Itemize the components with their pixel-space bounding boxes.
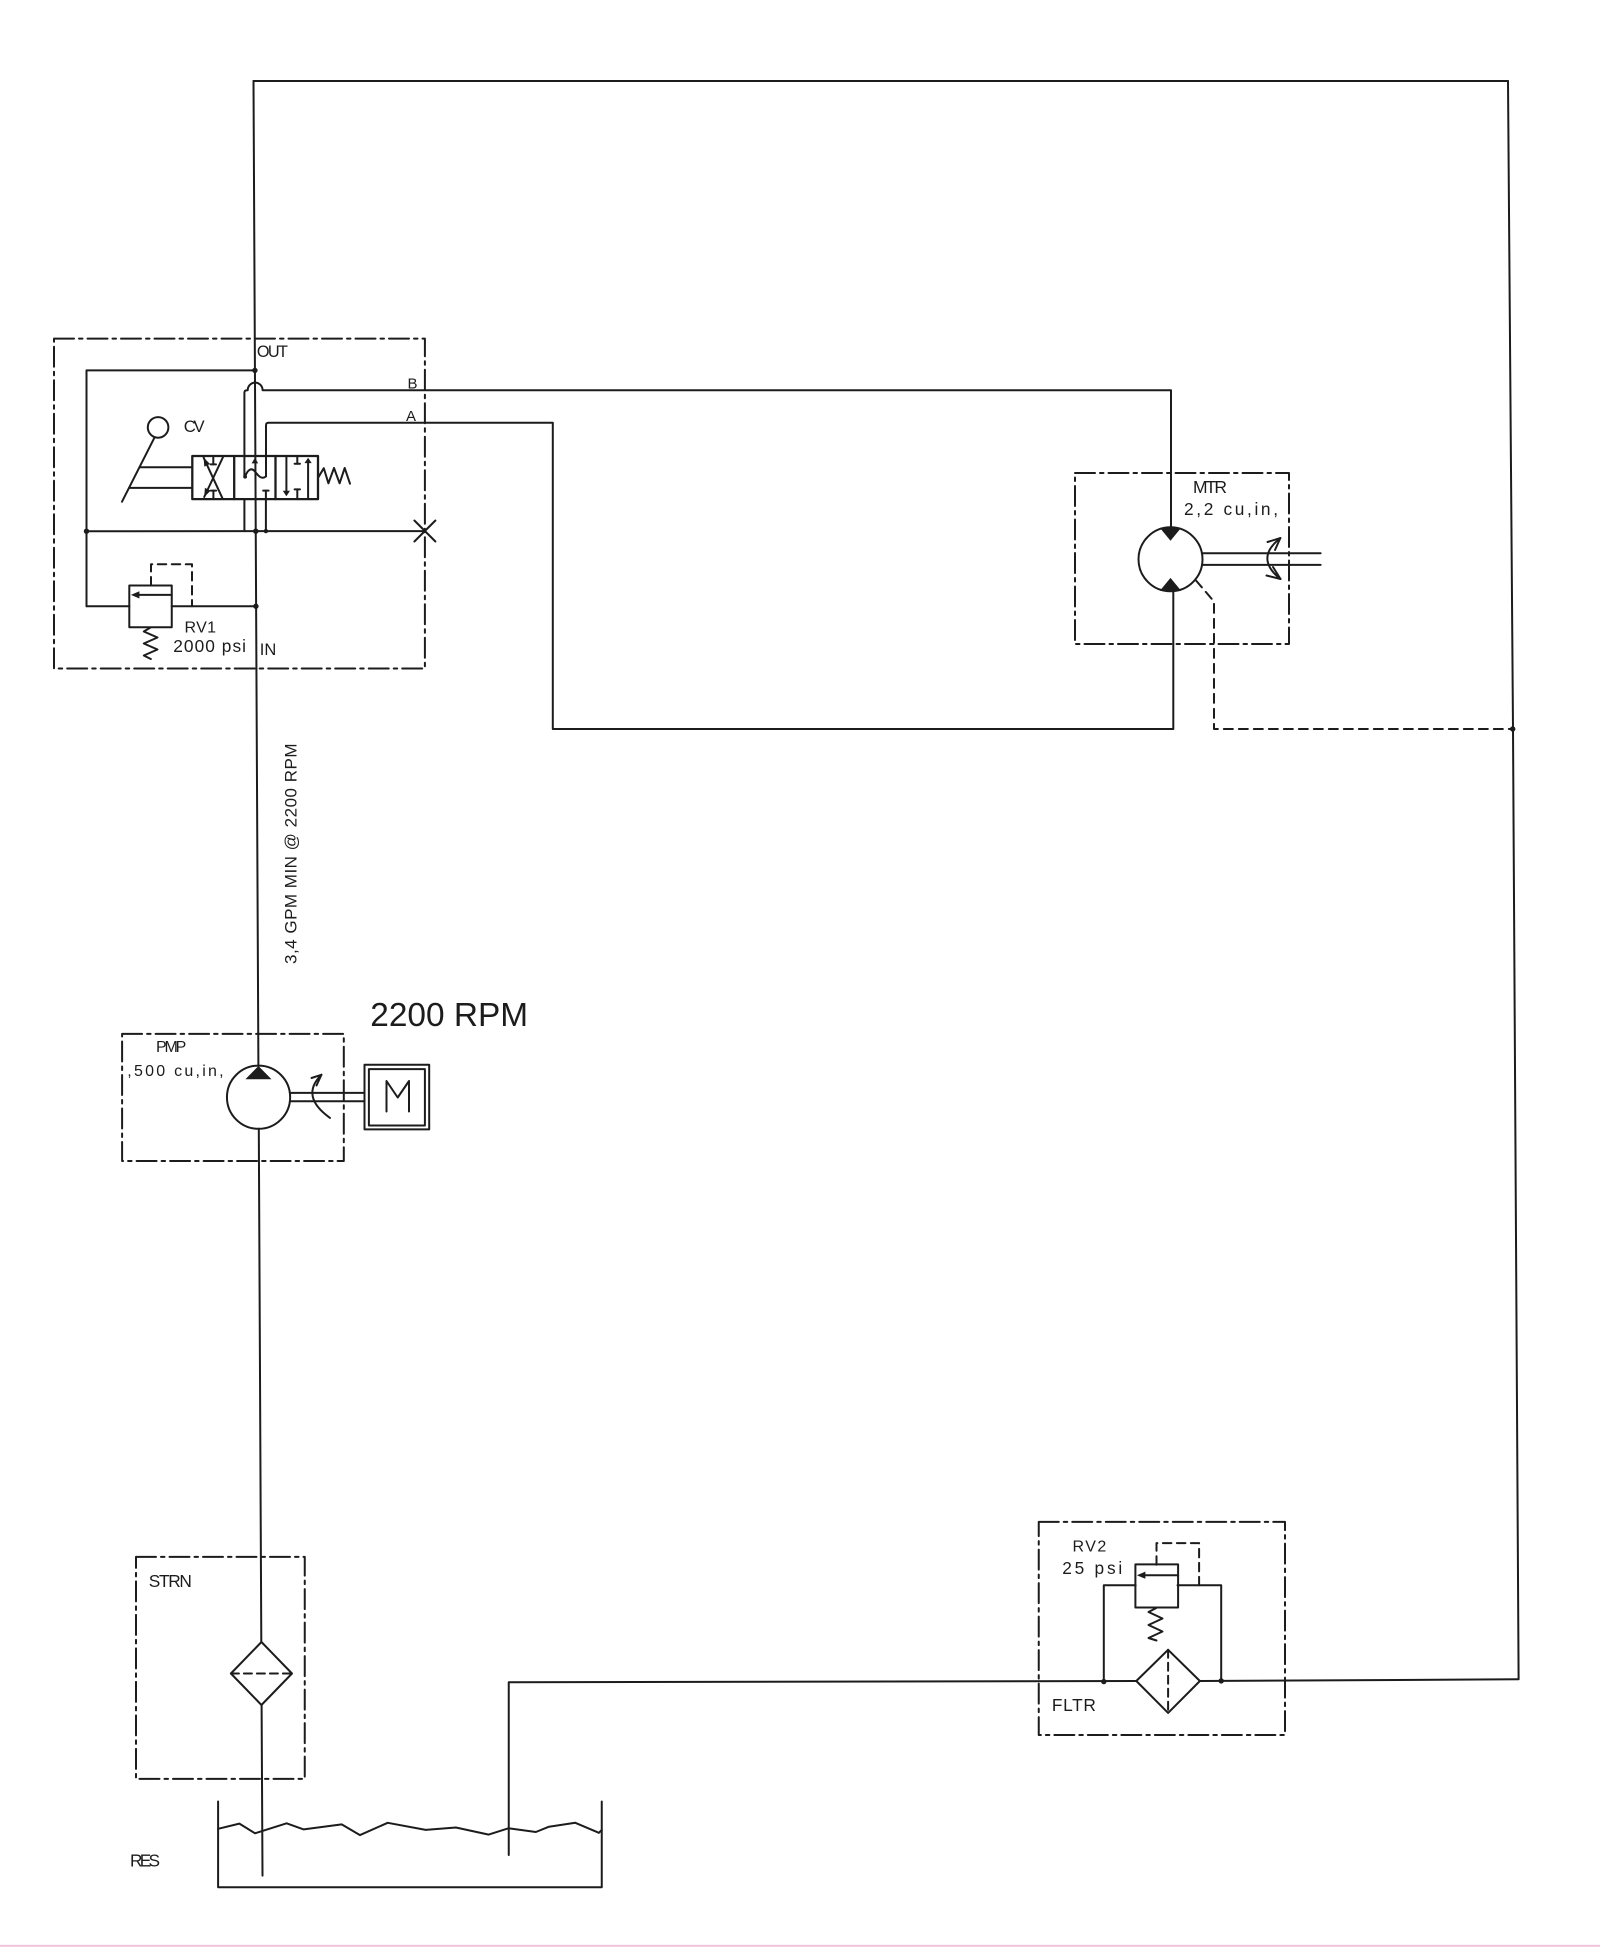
svg-text:2000 psi: 2000 psi — [173, 636, 246, 656]
electric motor box M — [365, 1065, 430, 1130]
svg-text:PMP: PMP — [156, 1039, 186, 1056]
RV1 outlet wire — [87, 605, 130, 607]
wire: B line from valve to motor top — [244, 383, 1171, 528]
motor assembly enclosure box (dash-dot) — [1075, 473, 1289, 644]
svg-text:RES: RES — [130, 1850, 160, 1870]
strainer enclosure box STRN (dash-dot) — [136, 1557, 305, 1779]
motor shaft — [1202, 553, 1321, 565]
junction nodes on IN line — [84, 529, 268, 534]
pump shaft — [290, 1093, 365, 1101]
svg-text:FLTR: FLTR — [1052, 1695, 1096, 1715]
motor rotation arrow — [1267, 538, 1281, 579]
wire: IN line — [87, 530, 425, 532]
svg-text:MTR: MTR — [1193, 477, 1227, 497]
motor case drain line (dashed) — [1196, 581, 1513, 730]
RV2 flow arrow — [1137, 1572, 1178, 1579]
pump assembly enclosure box (dash-dot) — [122, 1034, 344, 1161]
svg-text:A: A — [406, 408, 416, 425]
motor port triangles — [1160, 528, 1181, 591]
RV2 right bypass wire — [1178, 1585, 1222, 1681]
RV1 inlet wire — [172, 605, 256, 607]
svg-text:STRN: STRN — [149, 1571, 192, 1591]
lever linkage rods — [130, 467, 193, 488]
filter diamond — [1136, 1650, 1200, 1713]
junction node: OUT line — [252, 368, 257, 373]
pump rotation arrow — [312, 1075, 331, 1118]
junction nodes at filter — [1101, 1678, 1224, 1684]
valve right position: blocked port T symbols — [295, 456, 300, 499]
svg-text:IN: IN — [260, 641, 277, 659]
pump outlet triangle — [245, 1066, 271, 1079]
RV1 pilot line (dashed) — [151, 564, 192, 606]
wire: outer boundary top line — [254, 80, 1509, 82]
svg-text:2200 RPM: 2200 RPM — [370, 997, 528, 1034]
manual lever arm — [122, 437, 155, 501]
valve left position: crossed-flow arrows — [204, 457, 223, 499]
svg-text:CV: CV — [184, 417, 206, 436]
wire: OUT branch to RV1 outlet — [87, 370, 255, 606]
strainer diamond — [231, 1642, 292, 1705]
wire: A line from valve to motor bottom — [266, 423, 1173, 729]
svg-text:25 psi: 25 psi — [1062, 1558, 1122, 1578]
RV1 spring — [144, 628, 158, 660]
svg-text:3,4 GPM MIN @ 2200 RPM: 3,4 GPM MIN @ 2200 RPM — [282, 744, 301, 965]
valve IN port stubs — [244, 499, 266, 531]
valve center position: blocked tank port T — [263, 491, 268, 500]
RV2 left bypass wire — [1104, 1585, 1136, 1681]
relief valve RV2 body — [1135, 1564, 1178, 1607]
directional control valve body (3-position) — [192, 456, 318, 499]
junction node: drain to boundary — [1510, 726, 1515, 731]
RV1 flow arrow — [131, 591, 172, 598]
svg-text:,500 cu,in,: ,500 cu,in, — [127, 1063, 223, 1080]
scan artifact: pink edge line at bottom — [0, 1945, 1600, 1947]
plugged port X symbol — [414, 521, 435, 542]
svg-text:RV2: RV2 — [1073, 1539, 1107, 1556]
svg-text:2,2 cu,in,: 2,2 cu,in, — [1184, 499, 1278, 519]
svg-text:B: B — [408, 375, 418, 392]
relief valve RV1 body — [129, 586, 171, 628]
valve center position: restricted A-B passage (tilde curve) — [243, 469, 266, 478]
hydraulic motor MTR circle — [1139, 527, 1203, 591]
junction node: RV1 inlet on main line — [253, 604, 258, 609]
svg-text:RV1: RV1 — [185, 620, 217, 637]
wire: main pressure line pump-to-valve vertical — [254, 81, 263, 1876]
manual lever CV: knob circle — [148, 417, 169, 438]
wire: return line filter to reservoir — [509, 1681, 1137, 1855]
valve return spring — [318, 468, 350, 484]
valve left position: blocked port T symbols — [211, 456, 217, 499]
valve center position: flow arrow on main line — [252, 458, 259, 464]
RV2 pilot line (dashed) — [1157, 1543, 1200, 1585]
RV2 spring — [1149, 1608, 1163, 1641]
pump PMP circle — [227, 1066, 290, 1129]
valve assembly enclosure box (dash-dot) — [54, 339, 425, 669]
svg-text:OUT: OUT — [257, 343, 288, 361]
wire: boundary bottom horizontal into filter — [1200, 1679, 1519, 1681]
reservoir RES tank — [218, 1802, 602, 1888]
wire: outer boundary right line (motor drain return to filter) — [1508, 81, 1519, 1679]
filter enclosure box FLTR (dash-dot) — [1039, 1522, 1285, 1735]
valve right position: straight flow arrows — [283, 456, 312, 499]
